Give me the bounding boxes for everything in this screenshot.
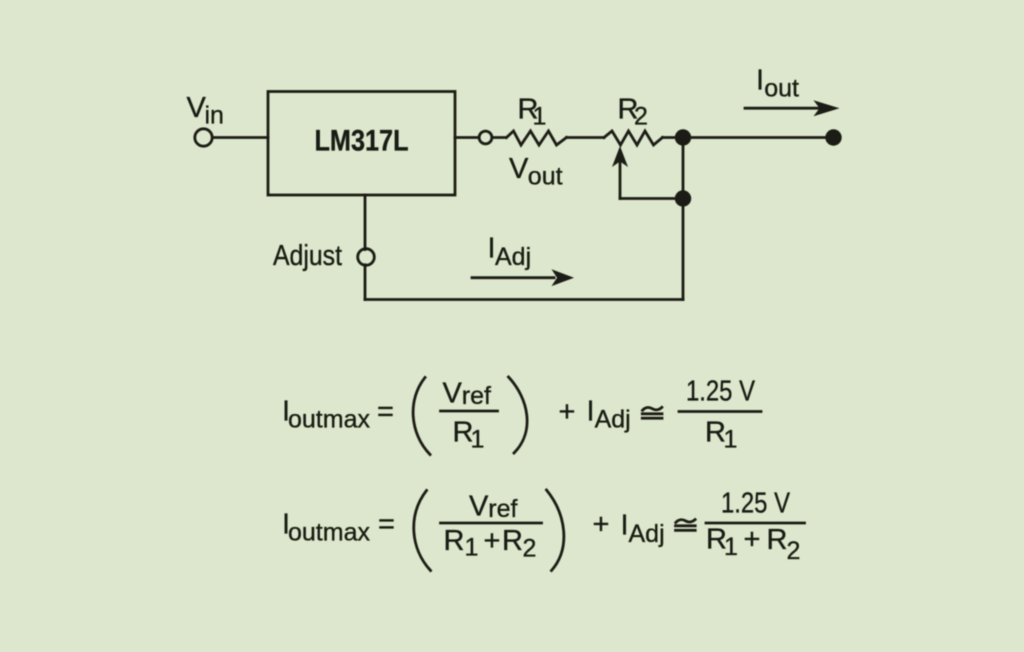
svg-text:+: + (484, 525, 501, 557)
label R1 (518, 94, 547, 131)
arrow Iout (745, 100, 840, 116)
junction node B (675, 190, 691, 206)
svg-text:I: I (587, 396, 595, 428)
formula 2 congruent sign (676, 520, 696, 531)
svg-text:2: 2 (787, 537, 801, 565)
wire R1 to R2 (567, 136, 605, 139)
formula 2 fraction 1.25V over R1+R2 (706, 488, 805, 566)
formula 2 open paren (414, 491, 431, 571)
svg-text:2: 2 (634, 103, 648, 131)
wire Vin terminal to LM317L input (212, 136, 268, 139)
svg-text:Adj: Adj (629, 520, 665, 548)
svg-text:V: V (443, 378, 463, 410)
svg-text:R: R (444, 525, 465, 557)
IC U1 LM317L body (268, 92, 455, 196)
svg-text:Adjust: Adjust (273, 240, 342, 272)
formula 1 open paren (413, 378, 430, 455)
svg-text:Adj: Adj (595, 406, 631, 434)
wiper arrow R2 (612, 146, 628, 199)
svg-text:1: 1 (724, 533, 738, 561)
svg-text:ref: ref (462, 382, 491, 410)
svg-text:out: out (528, 163, 563, 191)
label Iout (756, 65, 799, 103)
svg-text:=: = (378, 509, 395, 541)
wire node A down to adjust return (682, 138, 685, 300)
svg-text:V: V (469, 491, 489, 523)
formula 2 fraction Vref over R1+R2 (441, 491, 542, 563)
wire adjust return bottom (365, 298, 683, 301)
arrow IAdj (472, 269, 574, 286)
wire LM317L output pin (455, 136, 479, 139)
svg-text:ref: ref (488, 495, 517, 523)
svg-text:=: = (377, 396, 394, 428)
formula 2: Ioutmax = (Vref/(R1+R2)) + IAdj ~= 1.25V/(R1+R2) (282, 509, 395, 547)
svg-text:1.25 V: 1.25 V (721, 488, 791, 520)
svg-text:1.25 V: 1.25 V (686, 376, 756, 408)
resistor R1 (507, 131, 567, 145)
svg-text:R: R (767, 524, 788, 556)
label R2 (618, 94, 648, 131)
svg-text:out: out (764, 75, 799, 103)
formula 1: Ioutmax = (Vref/R1) + IAdj ~= 1.25V/R1 (282, 396, 394, 434)
wire wiper to node B (620, 197, 683, 200)
wire R2 to output rail (663, 136, 834, 139)
svg-text:I: I (756, 65, 764, 97)
formula 1 fraction 1.25V over R1 (679, 376, 761, 454)
svg-text:I: I (621, 510, 629, 542)
svg-text:1: 1 (465, 534, 479, 562)
formula 2 close paren (547, 490, 564, 571)
formula 1 fraction Vref over R1 (441, 378, 498, 454)
svg-text:R: R (502, 525, 523, 557)
label Vin (187, 92, 224, 130)
terminal Vout (479, 131, 492, 144)
wire LM317L adjust pin (364, 195, 367, 250)
formula 1 close paren (509, 377, 528, 453)
svg-text:outmax: outmax (288, 519, 370, 547)
svg-text:outmax: outmax (288, 406, 370, 434)
terminal Adjust (358, 249, 375, 266)
svg-text:Adj: Adj (495, 243, 531, 271)
junction node A (675, 129, 691, 145)
wire adjust terminal down (364, 265, 367, 300)
svg-text:2: 2 (523, 535, 537, 563)
formula 1 congruent sign (642, 407, 662, 418)
formula 2 plus IAdj (593, 509, 665, 549)
svg-text:+: + (593, 509, 610, 541)
svg-text:+: + (559, 396, 576, 428)
svg-text:1: 1 (533, 103, 547, 131)
svg-text:1: 1 (724, 426, 738, 454)
terminal Vin (195, 129, 212, 146)
svg-text:in: in (205, 102, 224, 130)
wire Vout terminal to R1 (492, 136, 506, 139)
svg-text:+: + (744, 524, 761, 556)
terminal output (825, 129, 841, 145)
svg-text:V: V (187, 92, 207, 124)
svg-text:1: 1 (471, 426, 485, 454)
formula 1 plus IAdj (559, 396, 631, 434)
label IAdj (488, 233, 532, 272)
label Vout (509, 153, 563, 191)
svg-text:LM317L: LM317L (315, 125, 409, 158)
potentiometer R2 (604, 131, 663, 145)
svg-text:V: V (509, 153, 529, 185)
